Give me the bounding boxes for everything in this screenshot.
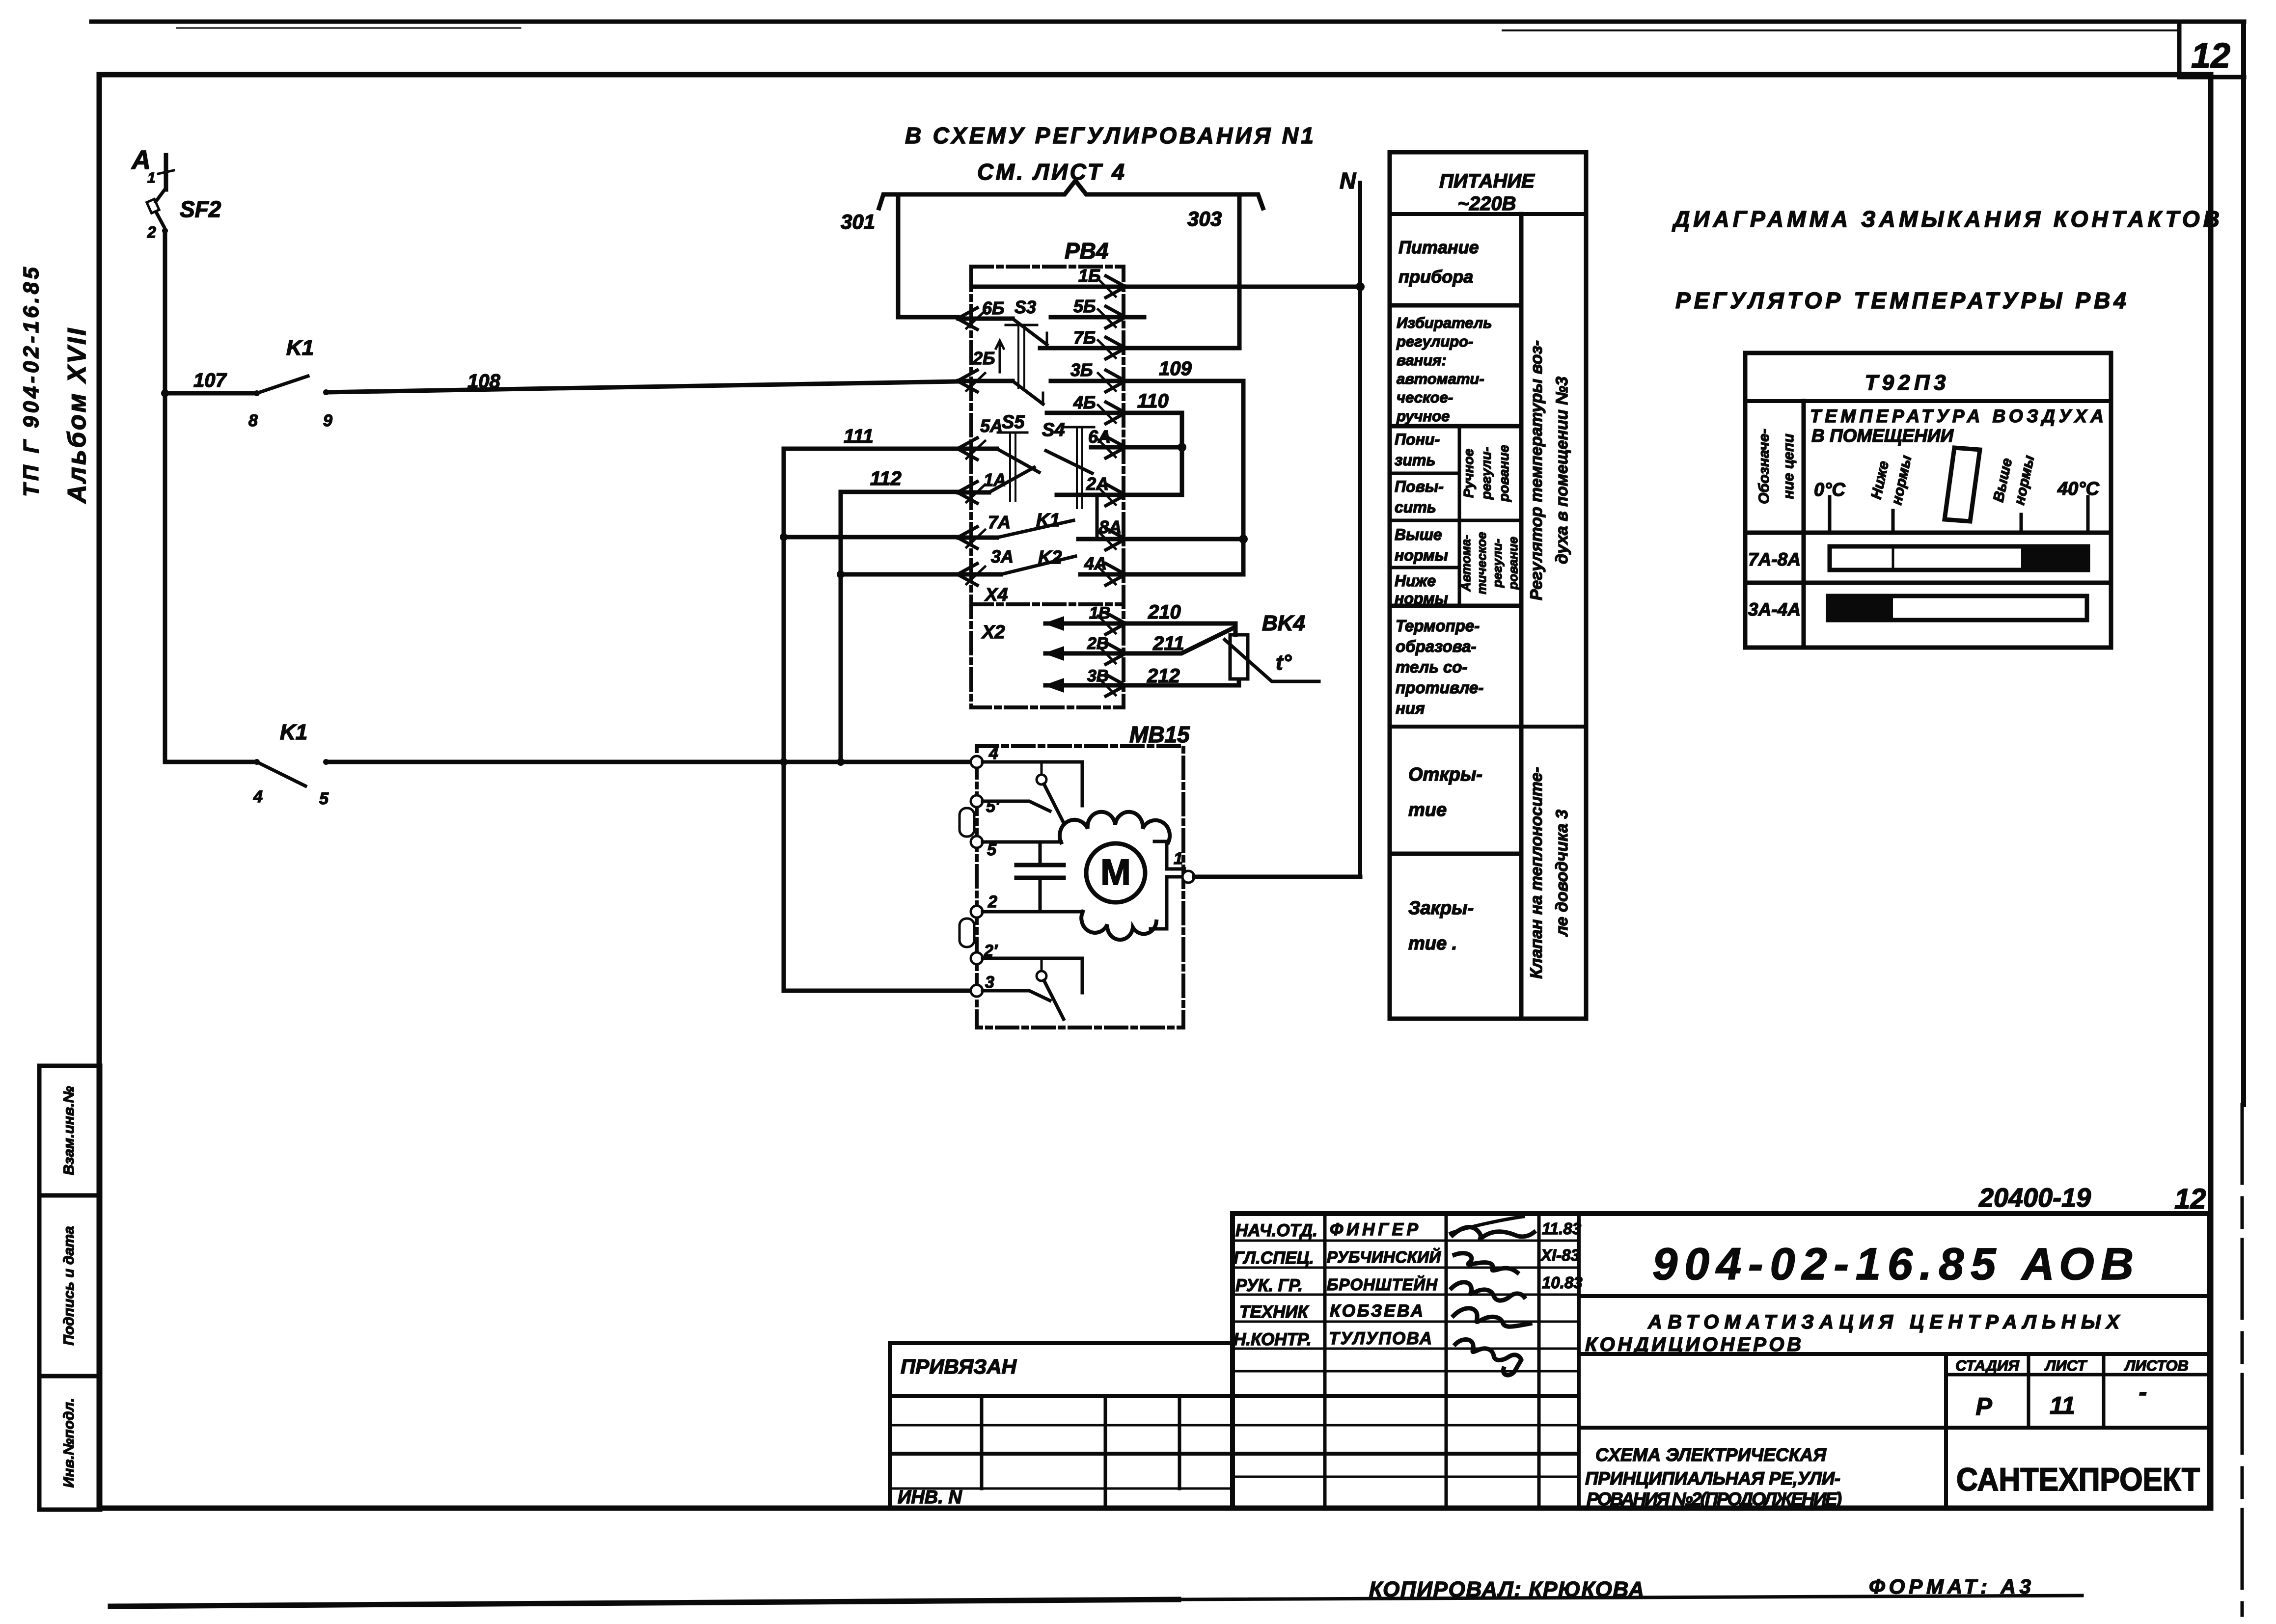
PB4 output arrow 1B [1106,276,1125,298]
svg-text:Ниже: Ниже [1395,572,1436,590]
svg-text:ния: ния [1396,699,1425,717]
svg-text:MB15: MB15 [1129,722,1190,747]
svg-text:S4: S4 [1042,420,1065,440]
svg-text:t°: t° [1276,650,1292,675]
MB15 terminal 5 [971,836,983,848]
svg-text:11: 11 [2050,1392,2075,1419]
svg-text:ПИТАНИЕ: ПИТАНИЕ [1439,170,1535,192]
switch S4 (6A-2A) [1046,451,1092,473]
svg-text:5: 5 [319,789,329,808]
0C tick [1828,497,1832,533]
svg-text:Закры-: Закры- [1408,898,1474,919]
sheet top edge line [91,20,2244,24]
svg-text:РУБЧИНСКИЙ: РУБЧИНСКИЙ [1327,1247,1441,1266]
svg-text:СТАДИЯ: СТАДИЯ [1955,1357,2020,1374]
wire terminal 5 to motor winding [983,840,1061,844]
svg-text:-: - [2139,1378,2147,1406]
svg-text:Избиратель: Избиратель [1397,314,1492,331]
svg-text:4Б: 4Б [1073,392,1096,412]
svg-text:9: 9 [323,411,332,430]
svg-text:ТП Г 904-02-16.85: ТП Г 904-02-16.85 [19,264,43,497]
svg-text:110: 110 [1137,390,1169,412]
node junction 7A branch [780,533,788,541]
contact K1 (8-9) [254,390,260,396]
PB4 output arrow 4A [1106,564,1125,585]
svg-text:КОПИРОВАЛ: КРЮКОВА: КОПИРОВАЛ: КРЮКОВА [1369,1577,1644,1601]
svg-text:12: 12 [2174,1183,2206,1215]
contact bar 3A-4A [1828,596,2087,620]
PB4 input arrow 1A [958,482,977,503]
svg-text:S3: S3 [1015,297,1036,317]
svg-text:Клапан на теплоносите-: Клапан на теплоносите- [1527,767,1546,978]
svg-text:Н.КОНТР.: Н.КОНТР. [1234,1330,1312,1349]
MB15 terminal 3 [971,985,983,997]
grouping bracket to scheme N1 [879,181,1263,208]
svg-text:Питание: Питание [1399,237,1479,257]
svg-text:регулиро-: регулиро- [1396,333,1473,350]
svg-text:210: 210 [1148,601,1181,623]
svg-text:X2: X2 [981,622,1005,643]
PB4 output arrow 2A [1106,484,1125,506]
table: circuit purposes [1390,152,1586,1019]
svg-text:ческое-: ческое- [1397,389,1453,406]
svg-text:регули-: регули- [1490,539,1505,588]
svg-text:Откры-: Откры- [1408,764,1482,785]
PB4 output arrow 5B [1106,306,1125,328]
svg-text:6Б: 6Б [982,298,1005,318]
PB4 output arrow 3B [1106,370,1125,392]
svg-text:тие: тие [1408,800,1447,820]
PB4 output arrow 1V [1106,613,1125,634]
svg-text:ПРИВЯЗАН: ПРИВЯЗАН [901,1355,1017,1378]
svg-text:~220В: ~220В [1458,193,1516,215]
svg-text:4: 4 [988,744,998,763]
PB4 input arrow 5A [958,438,977,460]
wire to MB15 terminal 3 [784,989,971,993]
bus N [1358,183,1362,877]
node junction 3A branch [837,570,845,578]
svg-text:4: 4 [253,787,263,806]
svg-text:сить: сить [1395,498,1436,516]
S3 linkage [1006,324,1037,326]
svg-text:2В: 2В [1087,634,1108,653]
nizhe normy tick [1892,511,1895,533]
X2 wire 2V [1045,651,1124,656]
svg-text:1В: 1В [1089,604,1110,623]
svg-text:КОНДИЦИОНЕРОВ: КОНДИЦИОНЕРОВ [1585,1334,1801,1355]
svg-text:212: 212 [1147,665,1180,687]
breaker SF2 [156,190,164,202]
svg-text:НАЧ.ОТД.: НАЧ.ОТД. [1235,1221,1317,1240]
motor M [1086,843,1145,902]
sheet number box "12" top right [2179,24,2244,77]
S4 linkage [1065,426,1094,429]
svg-text:ручное: ручное [1396,407,1450,425]
svg-text:PB4: PB4 [1065,238,1108,264]
svg-text:Термопре-: Термопре- [1396,617,1480,635]
MB15 terminal 5p [971,795,983,807]
svg-text:ФОРМАТ: А3: ФОРМАТ: А3 [1869,1575,2031,1598]
svg-text:САНТЕХПРОЕКТ: САНТЕХПРОЕКТ [1956,1461,2200,1497]
regulator PB4 box [971,267,1124,707]
wire 303 [1237,198,1242,348]
sheet right outer edge [2241,24,2246,1105]
MB15 terminal 1 [1182,871,1194,883]
svg-text:тическое: тическое [1474,532,1489,595]
wire vertical B [839,492,843,762]
svg-text:K1: K1 [286,336,314,360]
wire 112 [841,490,958,494]
svg-text:противле-: противле- [1396,678,1483,697]
svg-text:N: N [1340,168,1356,193]
svg-text:Ручное: Ручное [1461,449,1476,498]
svg-text:регули-: регули- [1479,447,1494,500]
big boxes dividers [1579,1294,2210,1298]
svg-text:СХЕМА ЭЛЕКТРИЧЕСКАЯ: СХЕМА ЭЛЕКТРИЧЕСКАЯ [1595,1445,1827,1465]
sheet bottom edge line [110,1599,1179,1606]
left stamp boxes [39,1066,100,1195]
wire 110 net (4B-6A-2A) [1125,413,1182,495]
contact K2 inside PB4 (3A-4A) [959,572,1001,577]
svg-text:107: 107 [193,370,227,391]
svg-text:K2: K2 [1038,547,1062,568]
svg-text:8А: 8А [1099,517,1122,537]
svg-text:РУК. ГР.: РУК. ГР. [1235,1276,1303,1295]
svg-text:зить: зить [1395,451,1435,469]
svg-text:7А: 7А [988,512,1011,532]
wire 5B stub [1125,315,1144,320]
X2 wire 3V [1045,683,1124,688]
node junction on vertical A [780,758,788,766]
svg-text:4А: 4А [1084,553,1107,573]
svg-text:Автома-: Автома- [1458,535,1473,592]
svg-text:112: 112 [870,468,902,489]
svg-text:тие .: тие . [1408,933,1457,954]
wire 108 to PB4 2B input [326,381,959,392]
svg-text:2: 2 [147,223,156,241]
wire to 7A input [784,535,958,540]
svg-text:12: 12 [2191,36,2230,76]
svg-text:Подпись и дата: Подпись и дата [61,1226,77,1345]
svg-text:ИНВ. N: ИНВ. N [898,1487,962,1508]
resistor between 2 and 2p [960,919,974,947]
svg-text:SF2: SF2 [180,196,221,222]
svg-text:3А: 3А [991,546,1014,567]
svg-text:8: 8 [248,411,258,430]
svg-text:автомати-: автомати- [1397,370,1484,387]
table: T92P3 diagram [1745,353,2111,648]
privyazan table [890,1341,1233,1345]
svg-text:111: 111 [844,426,874,447]
svg-text:109: 109 [1159,358,1192,379]
limit switch upper [983,762,1082,806]
svg-text:БРОНШТЕЙН: БРОНШТЕЙН [1327,1275,1438,1294]
svg-text:ПРИНЦИПИАЛЬНАЯ РЕ,УЛИ-: ПРИНЦИПИАЛЬНАЯ РЕ,УЛИ- [1585,1468,1840,1489]
wire from K1(4-5) to MB15 terminal 4 [326,760,971,764]
switch S5 (5A-1A) [959,447,997,451]
motor winding upper [1060,812,1170,842]
svg-text:ЛИСТ: ЛИСТ [2044,1357,2088,1374]
svg-text:Обозначе-: Обозначе- [1756,429,1772,504]
svg-text:Выше: Выше [1395,526,1442,543]
wire 111 [784,447,958,451]
svg-text:рование: рование [1506,537,1520,590]
svg-text:2Б: 2Б [972,348,995,368]
svg-text:0°С: 0°С [1814,480,1845,500]
svg-text:ТЕМПЕРАТУРА ВОЗДУХА: ТЕМПЕРАТУРА ВОЗДУХА [1810,406,2104,426]
contact bar 7A-8A [1830,546,2088,570]
wire vertical A [782,449,786,991]
svg-text:Регулятор температуры воз-: Регулятор температуры воз- [1527,340,1546,600]
svg-text:7Б: 7Б [1073,327,1096,348]
X2 wire 1V [1045,622,1124,626]
svg-text:духа в помещении №3: духа в помещении №3 [1553,377,1571,564]
svg-text:303: 303 [1187,207,1222,230]
MB15 terminal 2p [971,952,983,964]
svg-text:ГЛ.СПЕЦ.: ГЛ.СПЕЦ. [1234,1248,1314,1268]
setpoint parallelogram [1945,448,1980,521]
PB4 input arrow 2B [958,370,977,392]
PB4 output arrow 8A [1106,528,1125,550]
wire: left bus from SF2 down [163,231,167,762]
svg-text:2А: 2А [1086,474,1109,494]
svg-text:вания:: вания: [1397,352,1447,369]
svg-text:Т92П3: Т92П3 [1865,371,1946,395]
contact K1 inside PB4 (7A-8A) [959,536,997,540]
limit switch lower [983,958,1082,993]
svg-text:АВТОМАТИЗАЦИЯ ЦЕНТРАЛЬНЫХ: АВТОМАТИЗАЦИЯ ЦЕНТРАЛЬНЫХ [1647,1311,2120,1333]
svg-text:5Б: 5Б [1073,296,1096,316]
wire 211 [1125,628,1234,653]
node junction 107 [161,389,169,397]
svg-text:904-02-16.85 АОВ: 904-02-16.85 АОВ [1652,1239,2134,1289]
signatures [1453,1227,1534,1239]
svg-text:1: 1 [1174,849,1183,868]
svg-text:X4: X4 [984,585,1008,605]
thermistor BK4 [1230,635,1248,679]
wire terminal 1 to bus N [1194,875,1360,879]
svg-text:рование: рование [1496,445,1511,502]
wire 212 [1125,679,1239,685]
2B marker arrow [996,341,1004,372]
svg-text:Р: Р [1975,1393,1992,1420]
title block outer [1233,1214,2210,1508]
svg-text:S5: S5 [1002,412,1025,433]
wire 109 net (3B-8A-4A) [1125,381,1243,574]
svg-text:ТУЛУПОВА: ТУЛУПОВА [1329,1329,1432,1348]
svg-text:6А: 6А [1088,427,1111,447]
people table rows [1233,1240,1579,1242]
svg-text:K1: K1 [280,720,307,744]
svg-text:7А-8А: 7А-8А [1748,549,1801,569]
svg-text:211: 211 [1152,633,1184,654]
switch S3 pole 1 (6B-5B/7B) [959,317,1013,321]
MB15 terminal 4 [971,756,983,768]
wire 210 [1125,623,1235,635]
svg-text:ЛИСТОВ: ЛИСТОВ [2124,1357,2189,1374]
valve actuator MB15 box [977,746,1183,1028]
svg-text:3В: 3В [1087,667,1108,685]
capacitor [1016,863,1064,867]
svg-text:20400-19: 20400-19 [1978,1183,2091,1213]
svg-text:2′: 2′ [984,942,998,960]
svg-text:образова-: образова- [1396,637,1477,655]
svg-text:40°С: 40°С [2057,479,2099,499]
svg-text:тель со-: тель со- [1396,658,1467,676]
svg-text:прибора: прибора [1399,267,1473,287]
svg-text:Пони-: Пони- [1395,431,1440,448]
svg-text:3: 3 [985,973,994,992]
motor winding lower [1081,912,1156,940]
svg-text:108: 108 [467,371,500,392]
svg-text:ТЕХНИК: ТЕХНИК [1239,1302,1310,1322]
svg-text:2: 2 [987,893,997,911]
svg-text:Инв.№подл.: Инв.№подл. [61,1398,77,1488]
svg-text:М: М [1100,852,1131,893]
svg-text:5′: 5′ [986,797,1000,816]
wire 107 [165,391,257,396]
svg-text:10.83: 10.83 [1542,1273,1583,1292]
svg-text:K1: K1 [1036,510,1060,531]
svg-text:BK4: BK4 [1262,611,1305,635]
svg-text:301: 301 [841,210,875,233]
S5 linkage [998,432,1027,434]
wire 7B to 303 [1125,346,1239,351]
contact K1 (4-5) lower [165,760,257,764]
vyshe normy tick [2020,514,2023,533]
svg-text:нормы: нормы [1395,546,1448,564]
PB4 input arrow 3A [958,564,977,585]
wire terminal 2 to motor winding [983,910,1083,914]
svg-text:РЕГУЛЯТОР ТЕМПЕРАТУРЫ РВ4: РЕГУЛЯТОР ТЕМПЕРАТУРЫ РВ4 [1675,288,2126,313]
PB4 input arrow 6B [958,308,977,329]
svg-text:Повы-: Повы- [1395,478,1444,495]
svg-text:1Б: 1Б [1078,266,1101,286]
resistor between 5p and 5 [960,808,974,837]
PB4 output arrow 7B [1106,337,1125,359]
PB4 output arrow 2V [1106,643,1125,664]
svg-text:11.83: 11.83 [1542,1219,1581,1238]
wire to 3A input [841,572,958,577]
svg-text:3А-4А: 3А-4А [1748,599,1801,620]
node on bus N at 1B wire [1356,282,1365,291]
40C tick [2086,497,2090,533]
svg-text:XI-83: XI-83 [1540,1246,1580,1264]
PB4 input arrow 7A [958,527,977,548]
MB15 terminal 2 [971,906,983,918]
1B internal stub [973,285,1124,289]
svg-text:В ПОМЕЩЕНИИ: В ПОМЕЩЕНИИ [1811,426,1954,446]
people table columns [1323,1214,1327,1508]
svg-text:5А: 5А [980,416,1003,436]
svg-text:Альбом XVII: Альбом XVII [63,326,91,504]
svg-text:ле доводчика 3: ле доводчика 3 [1553,810,1571,937]
node A phase input [164,155,168,189]
svg-text:Взам.инв.№: Взам.инв.№ [61,1086,77,1175]
svg-text:5: 5 [987,840,997,859]
svg-text:ние цепи: ние цепи [1781,433,1797,499]
PB4 output arrow 4B [1106,402,1125,424]
svg-text:1: 1 [147,170,156,186]
svg-text:РОВАНИЯ №2(ПРОДОЛЖЕНИЕ): РОВАНИЯ №2(ПРОДОЛЖЕНИЕ) [1587,1489,1842,1509]
connector X4/X2 divider [971,602,1124,606]
wire 1B to bus N [1125,285,1360,289]
svg-text:нормы: нормы [1395,590,1448,607]
svg-text:3Б: 3Б [1070,360,1093,380]
wire 301 [898,198,958,317]
PB4 output arrow 6A [1106,436,1125,458]
svg-text:1А: 1А [984,470,1006,490]
switch S3 pole 2 (2B-3B/4B) [959,379,1013,383]
PB4 output arrow 3V [1106,675,1125,696]
